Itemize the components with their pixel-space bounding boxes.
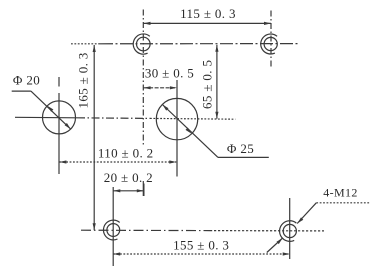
arrow down-left 4-M12 [297, 217, 303, 223]
threaded hole M12 top-right [261, 34, 278, 54]
svg-text:165 ± 0. 3: 165 ± 0. 3 [75, 52, 90, 108]
second leader segment lower-left of hole [267, 238, 283, 253]
arrow down-right phi20 [65, 123, 71, 129]
vertical extension bottom-right hole [289, 198, 291, 259]
dimension line 115 [144, 22, 272, 24]
arrow right 115 [264, 22, 271, 25]
arrow down 65 [215, 112, 218, 119]
dimension line 165 vertical [93, 45, 95, 230]
dimension line 110 [59, 161, 176, 163]
arrow left 155 [113, 252, 120, 255]
vertical centerline top-left hole / extension x=143 [142, 10, 144, 147]
circle phi25 [156, 98, 197, 139]
svg-text:Φ 25: Φ 25 [227, 141, 254, 156]
arrow up-left phi20 [47, 106, 53, 112]
svg-text:Φ 20: Φ 20 [13, 73, 40, 88]
svg-text:65 ± 0. 5: 65 ± 0. 5 [200, 60, 215, 109]
threaded hole M12 bottom-left [103, 220, 119, 240]
vertical centerline phi20 circle (x=59) [58, 77, 60, 87]
dimension line 30 [144, 87, 177, 89]
arrow left 110 [59, 160, 66, 163]
arrow right 155 [283, 252, 290, 255]
svg-text:155 ± 0. 3: 155 ± 0. 3 [173, 237, 229, 252]
svg-text:4-M12: 4-M12 [323, 186, 357, 200]
diameter leader phi20: horizontal then diagonal [12, 90, 31, 92]
arrow down-right phi25 [186, 128, 192, 134]
arrow down 165 [93, 223, 96, 230]
arrow up 165 [93, 45, 96, 52]
vertical centerline phi25 circle (x=177) [176, 80, 178, 177]
threaded hole M12 bottom-right [280, 221, 297, 242]
arrow left 20 [113, 189, 120, 192]
arrow up 65 [215, 45, 218, 52]
svg-text:30 ± 0. 5: 30 ± 0. 5 [145, 65, 194, 80]
dimension line 20 [113, 190, 144, 192]
vertical centerline top-right hole [270, 11, 272, 69]
threaded hole M12 top-left [133, 34, 150, 54]
arrow right 30 [170, 86, 177, 89]
arrow up-left phi25 [162, 105, 168, 111]
mid horizontal centerline through big circles [15, 116, 77, 119]
dimension line 65 vertical [216, 45, 218, 119]
svg-text:20 ± 0. 2: 20 ± 0. 2 [104, 170, 153, 185]
extension line x=113 bottom-left hole vertical [112, 187, 114, 266]
leader 4-M12: horizontal and diagonal with arrow [316, 202, 369, 204]
circle phi20 [43, 101, 76, 134]
svg-text:115 ± 0. 3: 115 ± 0. 3 [180, 6, 236, 21]
arrow right 110 [169, 160, 176, 163]
svg-text:110 ± 0. 2: 110 ± 0. 2 [98, 146, 154, 161]
arrow up-right second leader [277, 238, 283, 244]
bottom centerline through bottom holes [81, 229, 210, 231]
dimension line 155 [113, 253, 290, 255]
arrow right 20 [137, 189, 144, 192]
diameter leader phi25 [162, 105, 218, 158]
extension tick x=143.9 for 20 dim [143, 184, 145, 197]
arrow left 30 [144, 86, 151, 89]
vertical centerline x=143 lower segment [142, 181, 144, 196]
arrow left 115 [144, 22, 151, 25]
top centerline through top holes [71, 43, 100, 45]
